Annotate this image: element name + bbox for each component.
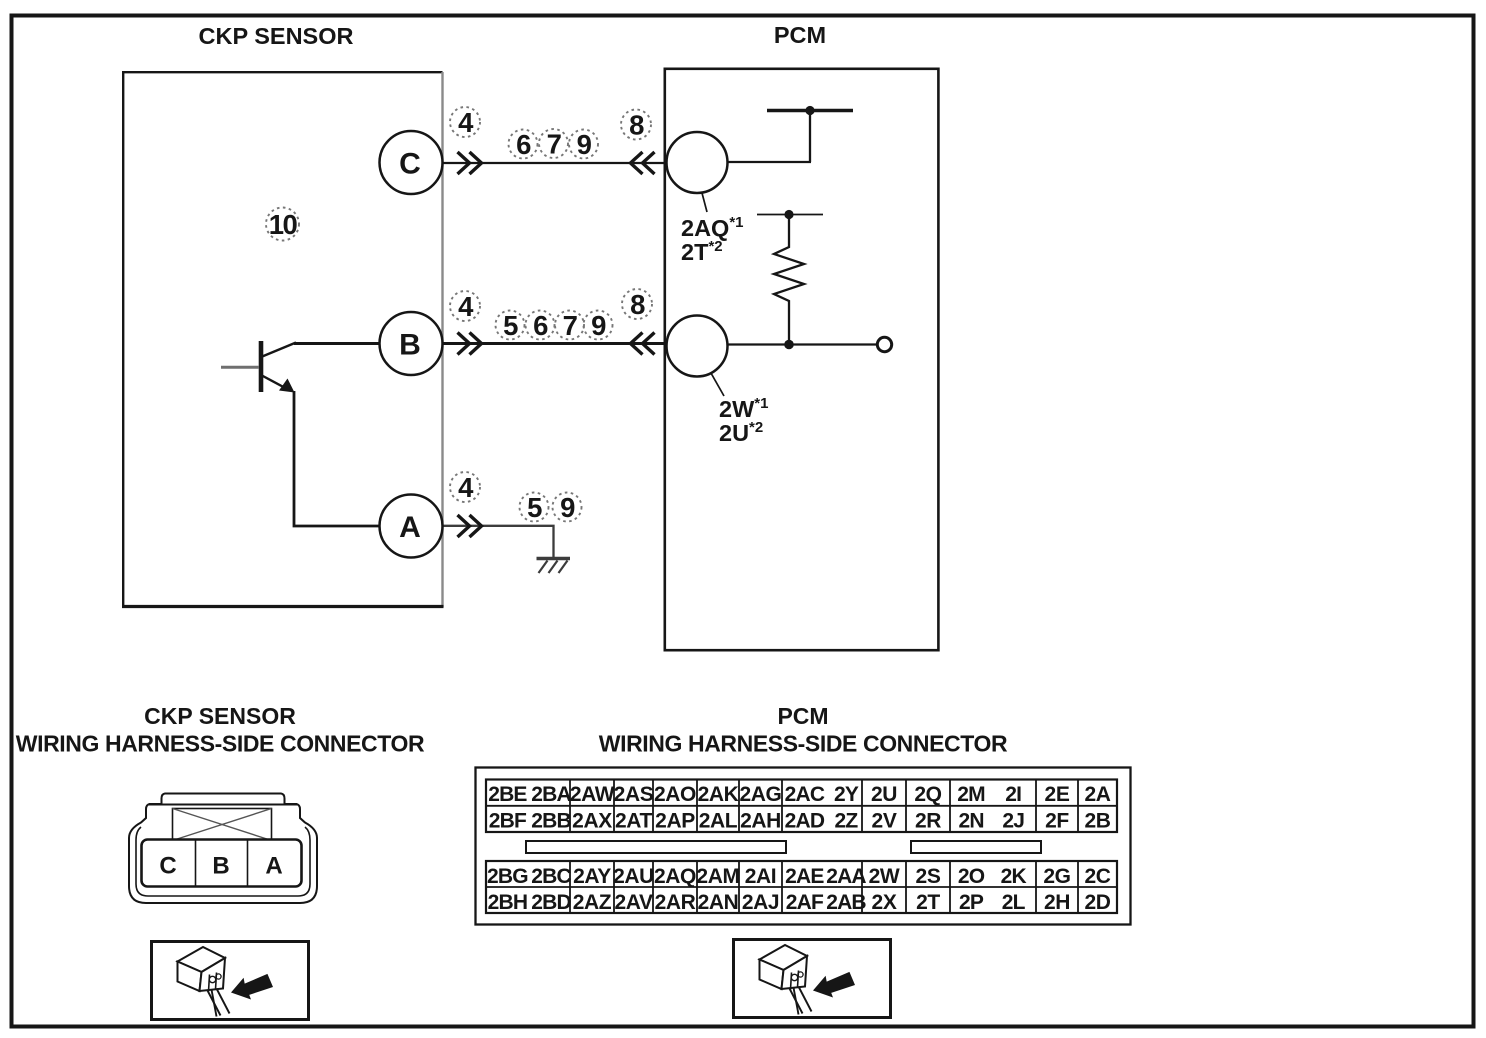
svg-text:2P: 2P: [959, 891, 984, 914]
svg-text:2BH: 2BH: [488, 891, 528, 914]
svg-text:9: 9: [591, 310, 606, 341]
svg-text:2D: 2D: [1084, 891, 1110, 914]
svg-text:10: 10: [269, 209, 298, 240]
svg-text:2AY: 2AY: [573, 865, 611, 888]
svg-text:7: 7: [547, 129, 562, 160]
svg-text:2U: 2U: [871, 783, 897, 806]
svg-text:6: 6: [533, 310, 548, 341]
svg-text:2AS: 2AS: [614, 783, 654, 806]
svg-text:6: 6: [516, 129, 531, 160]
svg-text:2AR: 2AR: [655, 891, 696, 914]
svg-text:WIRING HARNESS-SIDE CONNECTOR: WIRING HARNESS-SIDE CONNECTOR: [16, 731, 425, 757]
svg-text:2AB: 2AB: [826, 891, 866, 914]
svg-text:2E: 2E: [1045, 783, 1070, 806]
svg-text:2Q: 2Q: [914, 783, 941, 806]
svg-text:A: A: [265, 853, 282, 880]
svg-text:2B: 2B: [1084, 810, 1110, 833]
svg-text:B: B: [212, 853, 229, 880]
svg-text:2AZ: 2AZ: [573, 891, 612, 914]
svg-text:5: 5: [527, 492, 542, 523]
svg-text:2M: 2M: [957, 783, 985, 806]
svg-text:2X: 2X: [872, 891, 897, 914]
svg-text:2Y: 2Y: [834, 783, 859, 806]
svg-text:2T*2: 2T*2: [681, 238, 723, 265]
svg-text:2AL: 2AL: [699, 810, 738, 833]
svg-text:WIRING HARNESS-SIDE CONNECTOR: WIRING HARNESS-SIDE CONNECTOR: [599, 731, 1008, 757]
svg-text:2AO: 2AO: [654, 783, 696, 806]
svg-text:2C: 2C: [1084, 865, 1110, 888]
svg-text:2AP: 2AP: [655, 810, 695, 833]
svg-text:2AQ: 2AQ: [654, 865, 696, 888]
svg-text:2T: 2T: [916, 891, 940, 914]
svg-text:2AI: 2AI: [745, 865, 776, 888]
svg-text:2K: 2K: [1001, 865, 1027, 888]
svg-text:B: B: [399, 329, 421, 362]
svg-text:2AH: 2AH: [740, 810, 781, 833]
svg-text:CKP SENSOR: CKP SENSOR: [144, 703, 296, 729]
svg-text:2I: 2I: [1005, 783, 1021, 806]
svg-text:2H: 2H: [1044, 891, 1070, 914]
svg-text:2AK: 2AK: [698, 783, 739, 806]
svg-text:2BA: 2BA: [531, 783, 571, 806]
svg-text:2AN: 2AN: [698, 891, 739, 914]
svg-text:7: 7: [563, 310, 578, 341]
svg-text:2F: 2F: [1045, 810, 1069, 833]
svg-text:2AQ*1: 2AQ*1: [681, 214, 744, 241]
svg-text:8: 8: [630, 289, 645, 320]
svg-text:2AG: 2AG: [740, 783, 782, 806]
svg-text:2AW: 2AW: [570, 783, 615, 806]
svg-text:2AX: 2AX: [572, 810, 612, 833]
svg-text:2U*2: 2U*2: [719, 419, 763, 446]
svg-text:A: A: [399, 511, 421, 544]
svg-text:PCM: PCM: [777, 703, 828, 729]
svg-text:2AM: 2AM: [696, 865, 739, 888]
svg-text:5: 5: [503, 310, 518, 341]
svg-text:2AJ: 2AJ: [742, 891, 779, 914]
svg-text:2W: 2W: [869, 865, 900, 888]
svg-text:2L: 2L: [1002, 891, 1026, 914]
svg-text:9: 9: [560, 492, 575, 523]
svg-text:2AE: 2AE: [785, 865, 824, 888]
svg-text:2S: 2S: [916, 865, 941, 888]
svg-text:4: 4: [458, 107, 474, 138]
svg-text:4: 4: [458, 291, 474, 322]
svg-text:2BE: 2BE: [488, 783, 527, 806]
svg-text:2AF: 2AF: [786, 891, 824, 914]
svg-text:2AT: 2AT: [615, 810, 652, 833]
svg-text:2A: 2A: [1084, 783, 1110, 806]
svg-text:2V: 2V: [872, 810, 897, 833]
svg-text:C: C: [399, 148, 421, 181]
svg-text:2Z: 2Z: [835, 810, 859, 833]
svg-text:2O: 2O: [958, 865, 985, 888]
svg-text:2AU: 2AU: [613, 865, 654, 888]
svg-text:2R: 2R: [915, 810, 941, 833]
svg-text:2J: 2J: [1002, 810, 1024, 833]
svg-text:4: 4: [458, 472, 474, 503]
svg-text:2BF: 2BF: [489, 810, 527, 833]
svg-text:2BC: 2BC: [531, 865, 571, 888]
svg-text:2AC: 2AC: [785, 783, 825, 806]
svg-text:2AA: 2AA: [826, 865, 866, 888]
svg-text:2BG: 2BG: [487, 865, 528, 888]
svg-text:9: 9: [577, 129, 592, 160]
svg-text:PCM: PCM: [774, 22, 826, 48]
svg-text:2BD: 2BD: [531, 891, 571, 914]
svg-text:2AV: 2AV: [614, 891, 652, 914]
svg-text:2AD: 2AD: [785, 810, 825, 833]
svg-text:2N: 2N: [958, 810, 983, 833]
svg-text:8: 8: [629, 110, 644, 141]
svg-text:2W*1: 2W*1: [719, 395, 768, 422]
svg-text:CKP SENSOR: CKP SENSOR: [199, 23, 354, 49]
svg-text:2G: 2G: [1043, 865, 1070, 888]
svg-text:2BB: 2BB: [531, 810, 571, 833]
svg-text:C: C: [159, 853, 176, 880]
